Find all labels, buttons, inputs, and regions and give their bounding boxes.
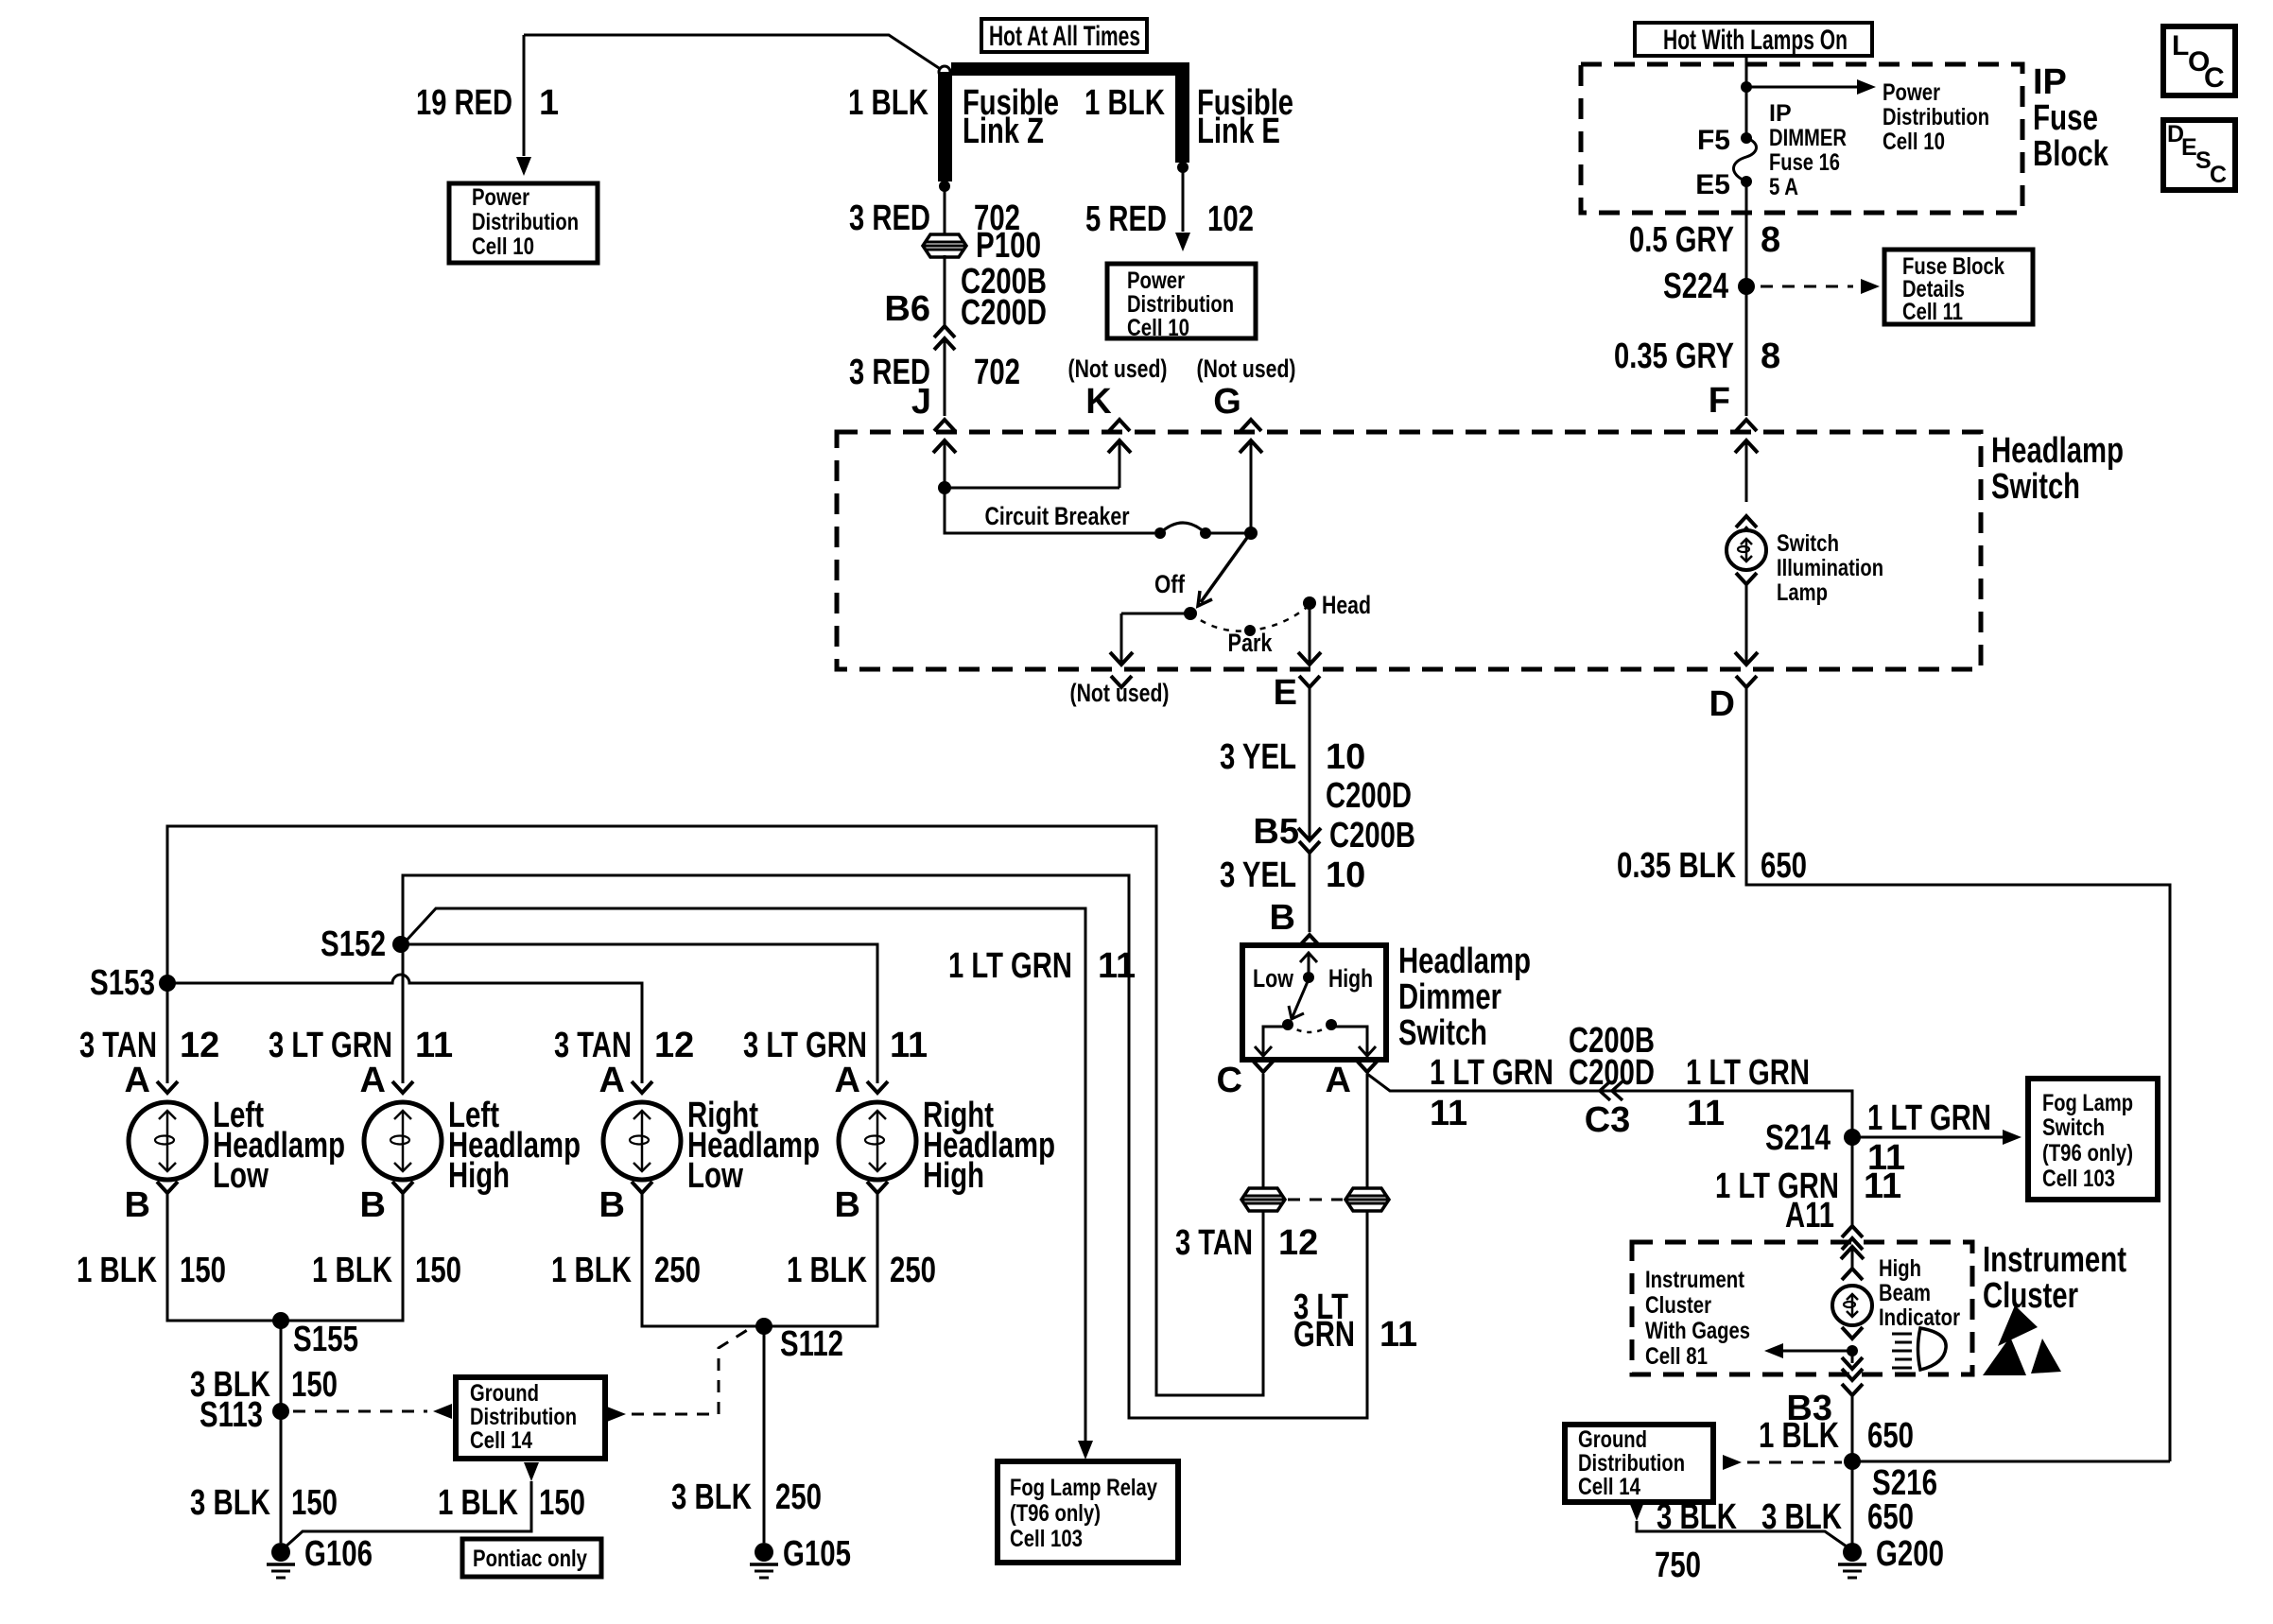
fuse terminal F5 [1741, 132, 1752, 144]
text: Ground Distribution Cell 14 (right) [1578, 1426, 1685, 1500]
svg-text:High: High [448, 1156, 510, 1196]
svg-text:Power: Power [472, 184, 529, 211]
junction below fusible link Z [939, 181, 950, 192]
svg-text:B: B [360, 1185, 386, 1225]
text: Ground Distribution Cell 14 (left) [470, 1380, 577, 1454]
svg-text:C200D: C200D [1569, 1053, 1655, 1093]
svg-text:Instrument: Instrument [1983, 1240, 2126, 1280]
splice S224 [1738, 278, 1755, 295]
fusible link Z (thick bar) [938, 72, 952, 181]
connector chevron pin D [1736, 676, 1757, 687]
circuit breaker contact right [1200, 527, 1211, 539]
svg-text:1 LT GRN: 1 LT GRN [1686, 1053, 1810, 1093]
splice S216 [1844, 1453, 1861, 1470]
connector chevrons above illumination lamp [1736, 516, 1757, 540]
arrow down to not-used terminal [1110, 613, 1133, 665]
wire: 19 RED drop with arrow into Power Distribution [516, 35, 531, 176]
arrow from ground distribution toward S112 [607, 1407, 626, 1422]
wire: S152 to right headlamp high [403, 944, 877, 1083]
svg-text:Fuse 16: Fuse 16 [1769, 149, 1840, 176]
connector chevron B (Right Headlamp Low) [632, 1182, 652, 1193]
svg-text:B: B [125, 1185, 150, 1225]
svg-text:Cell 81: Cell 81 [1645, 1343, 1708, 1370]
legend box: DESC [2163, 120, 2235, 190]
svg-text:Illumination: Illumination [1777, 555, 1883, 581]
component box: IP Fuse Block (dashed) [1581, 64, 2022, 213]
svg-text:(T96 only): (T96 only) [2042, 1140, 2133, 1166]
component box: Headlamp Switch (dashed) [837, 432, 1981, 669]
svg-text:3 BLK: 3 BLK [1657, 1497, 1737, 1537]
svg-text:11: 11 [1864, 1166, 1901, 1206]
connector C3 chevrons on wire [1600, 1081, 1622, 1100]
wire: 3 BLK 750 branch from G200 [1637, 1521, 1847, 1546]
wire: 3 BLK 250 S112 to G105 [763, 1326, 766, 1543]
svg-text:High: High [923, 1156, 984, 1196]
svg-text:150: 150 [180, 1251, 226, 1290]
svg-text:S112: S112 [780, 1324, 843, 1364]
connector chevron pin F [1736, 420, 1757, 431]
junction switch common [1244, 527, 1258, 540]
arrow into Fog Lamp Relay box [1078, 1441, 1093, 1460]
svg-text:250: 250 [775, 1477, 822, 1517]
svg-text:Link E: Link E [1197, 112, 1280, 151]
svg-text:Switch: Switch [1398, 1013, 1487, 1053]
internal arrow at pin F [1735, 441, 1758, 502]
svg-text:650: 650 [1867, 1497, 1914, 1537]
connector chevron B (Right Headlamp High) [867, 1182, 888, 1193]
svg-text:A11: A11 [1785, 1196, 1834, 1235]
svg-text:3 TAN: 3 TAN [1175, 1223, 1253, 1263]
svg-text:Cell 14: Cell 14 [1578, 1474, 1640, 1500]
label: Fusible Link E [1197, 83, 1293, 151]
wire: feed into fuse block [1745, 56, 1748, 138]
internal arrow at pin J [933, 441, 956, 488]
junction inside switch (J feed) [938, 481, 951, 494]
dimmer contact High [1326, 1019, 1337, 1030]
text: Instrument Cluster With Gages Cell 81 [1645, 1267, 1750, 1370]
dashed throw arc Off-Park-Head [1190, 605, 1310, 631]
label: C200B C200D at C3 [1569, 1021, 1655, 1093]
svg-text:P100: P100 [976, 226, 1041, 266]
arrow from ground distribution ref (right) [1723, 1455, 1742, 1470]
svg-text:IP: IP [1769, 100, 1792, 127]
svg-text:150: 150 [539, 1483, 585, 1523]
arrow from ground distribution (750 branch) [1629, 1502, 1644, 1521]
wire: 3 BLK 150 S155 to S113 [280, 1321, 283, 1409]
connector chevron A (Right Headlamp Low) [632, 1081, 652, 1093]
junction inside cluster [1847, 1345, 1858, 1356]
label: Instrument Cluster [1983, 1240, 2126, 1316]
svg-text:GRN: GRN [1293, 1315, 1355, 1355]
svg-text:3 LT GRN: 3 LT GRN [743, 1026, 867, 1065]
svg-text:Cell 103: Cell 103 [2042, 1166, 2115, 1192]
svg-text:0.35 GRY: 0.35 GRY [1614, 337, 1734, 376]
svg-text:1 LT GRN: 1 LT GRN [1867, 1098, 1991, 1138]
svg-text:Cell 10: Cell 10 [1883, 129, 1945, 155]
svg-text:Distribution: Distribution [1127, 291, 1234, 318]
svg-text:10: 10 [1326, 855, 1365, 895]
wire: Off contact to not-used terminal [1121, 613, 1190, 615]
svg-text:F: F [1709, 381, 1730, 421]
wire: 0.5 GRY 8 from fuse to S224 [1745, 181, 1748, 416]
svg-text:Park: Park [1228, 629, 1274, 657]
svg-text:750: 750 [1655, 1546, 1701, 1585]
splice S152 [392, 936, 409, 953]
wire: 3 RED to connector C200 [944, 255, 946, 326]
dashed reference wire to S112 [632, 1329, 749, 1414]
ground G105 [750, 1543, 778, 1578]
dimmer high output to pin A [1331, 1027, 1376, 1056]
svg-text:B: B [1270, 898, 1295, 938]
box: Hot With Lamps On [1635, 23, 1872, 56]
svg-text:0.35 BLK: 0.35 BLK [1617, 846, 1736, 886]
svg-text:1 LT GRN: 1 LT GRN [1430, 1053, 1553, 1093]
wire: right low B to S112 [642, 1193, 877, 1326]
svg-text:Hot With Lamps On: Hot With Lamps On [1663, 25, 1848, 56]
svg-text:Cell 10: Cell 10 [472, 233, 534, 260]
wire: 1 BLK 650 cluster to S216 [1851, 1395, 1854, 1461]
connector chevron dimmer pin A [1357, 1061, 1378, 1072]
wire: S153 down to left headlamp low [166, 983, 169, 1083]
svg-text:Ground: Ground [470, 1380, 539, 1407]
wire: 19 RED feed from fusible link to power distribution [524, 35, 939, 68]
svg-text:Fuse: Fuse [2033, 98, 2098, 138]
svg-text:Switch: Switch [2042, 1114, 2105, 1141]
svg-text:1 LT GRN: 1 LT GRN [948, 946, 1072, 986]
wire: circuit breaker to switch common [1206, 532, 1251, 535]
svg-text:Dimmer: Dimmer [1398, 977, 1501, 1017]
connector ring at fusible link [939, 66, 950, 78]
junction to power distribution ref [1741, 81, 1752, 93]
contact Park [1244, 625, 1256, 636]
svg-text:G200: G200 [1876, 1534, 1944, 1574]
connector chevrons at cluster bottom (B3) [1842, 1357, 1863, 1369]
wire: 3 TAN 12 dimmer pin C to S153 [167, 826, 1263, 1395]
svg-text:19 RED: 19 RED [416, 83, 512, 123]
reference box: Fog Lamp Switch (T96 only) Cell 103 [2028, 1079, 2158, 1200]
svg-text:C200D: C200D [1326, 776, 1412, 816]
label: Fusible Link Z [963, 83, 1059, 151]
arrow to Power Distribution Cell 10 ref [1746, 79, 1876, 95]
internal arrow to other cluster circuits [1764, 1343, 1852, 1358]
connector chevron above indicator lamp [1842, 1269, 1863, 1280]
svg-text:12: 12 [1278, 1223, 1318, 1263]
svg-text:1: 1 [539, 83, 559, 123]
lamp: Right Headlamp High [839, 1102, 916, 1180]
svg-text:K: K [1085, 382, 1112, 422]
wire: 5 RED 102 arrow into Power Distribution [1175, 167, 1190, 251]
svg-text:DIMMER: DIMMER [1769, 125, 1847, 151]
svg-text:Link Z: Link Z [963, 112, 1044, 151]
svg-text:S155: S155 [293, 1320, 358, 1359]
svg-text:650: 650 [1867, 1416, 1914, 1456]
arrow into connector C200 (B5) [1298, 828, 1321, 840]
fuse element (IP dimmer fuse) [1733, 138, 1756, 181]
svg-text:250: 250 [890, 1251, 936, 1290]
dimmer contact Low [1282, 1019, 1293, 1030]
connector chevron A (Left Headlamp Low) [157, 1081, 178, 1093]
svg-text:C: C [2210, 162, 2227, 188]
wire: 3 RED 702 to headlamp switch pin J [944, 338, 946, 416]
svg-text:Distribution: Distribution [1578, 1450, 1685, 1477]
svg-text:B6: B6 [884, 289, 930, 329]
contact Head [1303, 596, 1316, 610]
svg-text:E5: E5 [1695, 169, 1730, 200]
svg-text:11: 11 [415, 1026, 453, 1065]
svg-text:High: High [1879, 1255, 1921, 1282]
svg-text:S113: S113 [200, 1395, 263, 1435]
svg-text:11: 11 [1098, 946, 1136, 986]
splice S113 [272, 1403, 289, 1420]
circuit breaker contact left [1154, 527, 1166, 539]
pass-through grommet P100 [923, 234, 966, 257]
svg-text:Switch: Switch [1991, 467, 2080, 507]
svg-text:Fog Lamp: Fog Lamp [2042, 1090, 2133, 1116]
svg-text:Headlamp: Headlamp [1398, 942, 1531, 981]
wire: S153 to right headlamp low (with hop) [167, 975, 642, 1083]
svg-text:12: 12 [180, 1026, 219, 1065]
svg-text:(Not used): (Not used) [1070, 679, 1170, 707]
svg-text:Distribution: Distribution [470, 1404, 577, 1430]
label: Left Headlamp Low [213, 1096, 345, 1196]
connector chevron below illumination lamp [1736, 573, 1757, 584]
wire: Head contact down to pin E [1298, 603, 1321, 665]
connector chevron pin K [1109, 420, 1130, 431]
svg-text:C: C [1217, 1061, 1242, 1100]
label: IP DIMMER Fuse 16 5 A [1769, 100, 1847, 200]
pass-through grommet P100 (C wire) [1241, 1188, 1285, 1211]
svg-text:11: 11 [1430, 1094, 1467, 1133]
svg-text:3 BLK: 3 BLK [671, 1477, 752, 1517]
splice S112 [755, 1318, 772, 1335]
svg-text:1 BLK: 1 BLK [77, 1251, 157, 1290]
svg-text:C: C [2204, 62, 2225, 94]
wire: illumination lamp to pin D [1735, 584, 1758, 665]
reference box: Power Distribution Cell 10 (middle) [1107, 264, 1256, 338]
text: Power Distribution Cell 10 (IP) [1883, 79, 1989, 155]
label: Switch Illumination Lamp [1777, 530, 1883, 606]
svg-text:10: 10 [1326, 737, 1365, 777]
svg-text:(T96 only): (T96 only) [1010, 1500, 1101, 1527]
connector chevron A (Left Headlamp High) [392, 1081, 413, 1093]
svg-text:A: A [1326, 1061, 1351, 1100]
connector chevron dimmer pin C [1253, 1061, 1274, 1072]
svg-text:S152: S152 [321, 924, 386, 964]
ground G106 [267, 1543, 295, 1578]
reference box: Ground Distribution Cell 14 (left) [456, 1377, 605, 1459]
wire: S216 to 0.35 BLK 650 (headlamp switch D) [1852, 1460, 2170, 1463]
label: High Beam Indicator [1879, 1255, 1960, 1331]
wire: S152 down to left headlamp high [402, 944, 405, 1083]
splice S155 [272, 1312, 289, 1329]
dimmer pivot [1303, 972, 1314, 983]
dimmer lever arrow (to Low) [1289, 979, 1309, 1019]
svg-text:A: A [360, 1061, 386, 1100]
label: Left Headlamp High [448, 1096, 581, 1196]
svg-text:3 LT GRN: 3 LT GRN [269, 1026, 392, 1065]
svg-text:Low: Low [1253, 964, 1294, 993]
svg-text:Cluster: Cluster [1983, 1276, 2078, 1316]
svg-text:G106: G106 [304, 1534, 373, 1574]
wire: 1 BLK 150 Pontiac branch to G106 [284, 1481, 531, 1548]
wire: indicator to cluster ground pin [1851, 1351, 1854, 1363]
connector chevron dimmer pin B [1299, 935, 1320, 946]
svg-text:11: 11 [1687, 1094, 1725, 1133]
svg-text:250: 250 [654, 1251, 701, 1290]
dashed link between P100 grommets [1288, 1199, 1343, 1201]
arrow into Fuse Block Details ref [1861, 279, 1880, 294]
svg-text:D: D [1709, 684, 1735, 724]
icon: headlamp beam symbol [1892, 1328, 1946, 1370]
svg-text:Cell 103: Cell 103 [1010, 1526, 1083, 1552]
svg-text:3 BLK: 3 BLK [190, 1483, 270, 1523]
svg-text:L: L [2172, 30, 2189, 61]
contact Off [1184, 607, 1197, 620]
text: Fuse Block Details Cell 11 [1902, 253, 2004, 325]
wire: 3 RED 702 segment [944, 186, 946, 237]
svg-text:With Gages: With Gages [1645, 1318, 1750, 1344]
arrow from ground distribution ref (left) [433, 1404, 452, 1419]
connector chevrons cluster pin A11 [1842, 1226, 1863, 1250]
svg-text:High: High [1328, 964, 1373, 993]
wire: 0.35 BLK 650 from pin D to S216 [1746, 687, 2170, 1461]
wire: S152 to fog lamp relay [403, 908, 1085, 1452]
connector chevron pair at box edge [1842, 1369, 1863, 1380]
wire: 3 YEL 10 to dimmer pin B [1309, 853, 1311, 932]
svg-text:Fog Lamp Relay: Fog Lamp Relay [1010, 1475, 1157, 1501]
connector chevron pin E [1299, 676, 1320, 687]
svg-text:1 BLK: 1 BLK [551, 1251, 632, 1290]
dimmer common arrow (pin B) [1300, 953, 1317, 977]
svg-text:Ground: Ground [1578, 1426, 1647, 1453]
svg-text:A: A [125, 1061, 150, 1100]
label: Headlamp Dimmer Switch [1398, 942, 1531, 1053]
legend box: LOC [2163, 26, 2235, 95]
svg-text:Low: Low [687, 1156, 743, 1196]
svg-text:B: B [599, 1185, 625, 1225]
box: Hot At All Times [981, 19, 1147, 52]
svg-text:C3: C3 [1585, 1100, 1631, 1140]
connector chevron below box (not used) [1111, 676, 1132, 687]
connector chevron pin G [1241, 420, 1261, 431]
label: Headlamp Switch [1991, 431, 2124, 507]
wire: 1 LT GRN 11 S214 to cluster pin A11 [1851, 1137, 1854, 1225]
svg-text:11: 11 [890, 1026, 928, 1065]
reference box: Power Distribution Cell 10 (left) [449, 183, 598, 263]
svg-text:C200B: C200B [1329, 816, 1415, 855]
dashed throw arc Low-High [1288, 1025, 1331, 1032]
svg-text:150: 150 [415, 1251, 461, 1290]
svg-text:S214: S214 [1765, 1118, 1831, 1158]
svg-text:702: 702 [974, 353, 1020, 392]
internal arrow at pin K [1108, 441, 1131, 488]
svg-text:IP: IP [2033, 62, 2067, 102]
connector C200 chevrons (B5) [1299, 841, 1320, 853]
dashed reference wire to S216 [1747, 1461, 1842, 1464]
svg-text:1 BLK: 1 BLK [438, 1483, 518, 1523]
text: Fog Lamp Relay (T96 only) Cell 103 [1010, 1475, 1157, 1552]
svg-text:S224: S224 [1663, 267, 1728, 306]
connector chevron B (Left Headlamp Low) [157, 1182, 178, 1193]
svg-text:3 YEL: 3 YEL [1220, 855, 1296, 895]
svg-text:Power: Power [1127, 268, 1185, 294]
reference box: Ground Distribution Cell 14 (right) [1565, 1425, 1713, 1502]
svg-text:11: 11 [1379, 1315, 1417, 1355]
svg-text:(Not used): (Not used) [1197, 354, 1296, 383]
svg-text:G105: G105 [783, 1534, 851, 1574]
svg-text:Power: Power [1883, 79, 1940, 106]
circuit breaker arc [1160, 523, 1206, 533]
svg-text:3 TAN: 3 TAN [79, 1026, 157, 1065]
splice S214 [1844, 1129, 1861, 1146]
svg-text:0.5 GRY: 0.5 GRY [1629, 220, 1734, 260]
svg-text:Distribution: Distribution [1883, 104, 1989, 130]
label: IP Fuse Block [2033, 62, 2109, 174]
svg-text:1 BLK: 1 BLK [1759, 1416, 1839, 1456]
connector chevron A (Right Headlamp High) [867, 1081, 888, 1093]
svg-text:150: 150 [291, 1365, 338, 1405]
svg-text:(Not used): (Not used) [1068, 354, 1168, 383]
svg-text:150: 150 [291, 1483, 338, 1523]
svg-text:Headlamp: Headlamp [1991, 431, 2124, 471]
svg-text:B: B [835, 1185, 860, 1225]
svg-text:3 TAN: 3 TAN [554, 1026, 632, 1065]
svg-text:Hot At All Times: Hot At All Times [989, 21, 1140, 52]
connector chevron pin J [934, 420, 955, 431]
svg-text:Head: Head [1322, 591, 1371, 619]
switch illumination lamp [1726, 530, 1766, 570]
text: Power Distribution Cell 10 (left) [472, 184, 579, 260]
wire: 3 BLK 650 S216 to G200 [1851, 1461, 1854, 1545]
svg-text:Circuit Breaker: Circuit Breaker [985, 502, 1130, 530]
connector chevron below cluster [1842, 1384, 1863, 1395]
wire: internal J to K [945, 487, 1119, 490]
arrow: 1 LT GRN to Fog Lamp Switch [1852, 1130, 2021, 1145]
svg-text:12: 12 [654, 1026, 694, 1065]
connector chevron below indicator [1842, 1327, 1863, 1339]
wire: 1 LT GRN 11 from pin A to S214 [1367, 1074, 1852, 1137]
svg-text:102: 102 [1207, 199, 1254, 239]
svg-text:Low: Low [213, 1156, 269, 1196]
svg-text:G: G [1213, 382, 1241, 422]
dashed reference wire from S224 [1761, 285, 1853, 288]
lamp: Left Headlamp High [364, 1102, 442, 1180]
svg-text:1 BLK: 1 BLK [848, 83, 928, 123]
splice S153 [159, 975, 176, 992]
reference box: Pontiac only [462, 1539, 601, 1577]
svg-text:5 RED: 5 RED [1085, 199, 1167, 239]
svg-text:Pontiac only: Pontiac only [473, 1546, 587, 1572]
wire: 3 LT GRN 11 dimmer pin A to S152 [403, 875, 1367, 1418]
label: Right Headlamp High [923, 1096, 1055, 1196]
wire: 3 YEL 10 pin E to C200 connector [1309, 687, 1311, 840]
internal arrow at pin A11 [1841, 1247, 1864, 1268]
connector C200 chevrons (B6) [934, 326, 955, 350]
text: Fog Lamp Switch (T96 only) Cell 103 [2042, 1090, 2133, 1192]
component box: Instrument Cluster (dashed) [1632, 1242, 1972, 1374]
fusible link bus bar (thick) [951, 62, 1189, 76]
label: 3 LT GRN (A wire) [1293, 1287, 1355, 1355]
svg-text:Off: Off [1154, 570, 1186, 598]
wire: internal J down to circuit breaker [945, 488, 1154, 533]
svg-text:E: E [1274, 673, 1297, 713]
wire: 3 BLK 150 S113 to G106 [280, 1411, 283, 1543]
svg-text:A: A [835, 1061, 860, 1100]
svg-text:1 BLK: 1 BLK [787, 1251, 867, 1290]
svg-text:Block: Block [2033, 134, 2109, 174]
pass-through grommet P100 (A wire) [1345, 1188, 1389, 1211]
svg-text:F5: F5 [1697, 125, 1730, 156]
